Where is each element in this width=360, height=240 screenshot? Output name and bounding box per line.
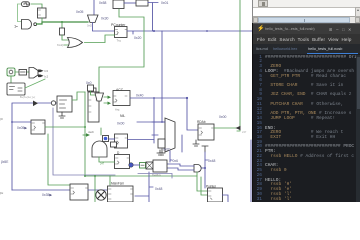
svg-text:b:2: b:2 [45, 75, 49, 79]
wire [181, 135, 183, 152]
svg-text:NIL: NIL [120, 114, 125, 118]
wire [187, 98, 198, 130]
svg-text:0x30: 0x30 [101, 17, 108, 21]
pin marks [116, 158, 130, 164]
component K3 [51, 101, 55, 105]
component glyph [21, 71, 26, 73]
or gate G2 [68, 38, 83, 48]
register T1 [38, 8, 47, 18]
wire [124, 2, 136, 4]
delay element D1 [60, 28, 65, 35]
clock glyph [24, 3, 30, 5]
wire green vert2 [48, 134, 70, 185]
svg-text:(0: (0 [0, 117, 3, 121]
cap top box [90, 88, 96, 92]
wire [31, 4, 42, 8]
junction [204, 167, 206, 169]
demux DM1 [153, 160, 167, 172]
register I1 [115, 134, 128, 148]
breaker X1 [96, 190, 106, 200]
wire diagonal [25, 79, 45, 88]
wire [93, 23, 115, 32]
led L1 [129, 163, 133, 167]
wire green out [214, 127, 237, 129]
wire green route [99, 9, 144, 93]
svg-text:247: 247 [100, 163, 105, 166]
wire [223, 195, 229, 202]
ground GND2 [193, 140, 199, 146]
junction [94, 175, 96, 177]
register IR2 [136, 0, 148, 6]
wire [202, 167, 205, 169]
svg-text:0x35▶: 0x35▶ [42, 193, 52, 197]
input triangle [108, 96, 112, 99]
wire [204, 152, 206, 188]
svg-text:0x01: 0x01 [161, 1, 168, 5]
svg-text:0x05: 0x05 [76, 10, 83, 14]
junction [61, 21, 63, 23]
ground GND3 [202, 146, 208, 152]
svg-text:Trq: Trq [117, 39, 122, 43]
menu bar [253, 34, 360, 44]
pin marks [209, 191, 213, 200]
svg-text:MainFsm: MainFsm [111, 182, 124, 186]
svg-text:247: 247 [242, 130, 247, 134]
wire [109, 176, 111, 185]
wire [61, 22, 63, 28]
svg-text:0x58: 0x58 [99, 1, 106, 5]
input triangle N1 [86, 133, 90, 137]
pin box green [140, 163, 146, 169]
wire green vert [84, 92, 86, 176]
wire [137, 121, 165, 123]
register R4 [70, 184, 88, 200]
junction [161, 121, 163, 123]
wire [135, 172, 153, 202]
wire [37, 22, 88, 24]
terminal K2 [7, 83, 25, 95]
svg-text:1•: 1• [14, 24, 18, 29]
terminal glyphs [10, 87, 23, 92]
svg-text:0x48: 0x48 [208, 159, 215, 163]
wire [18, 4, 22, 22]
svg-text:0x0: 0x0 [86, 81, 92, 85]
driver T2 [88, 15, 99, 23]
pin marks [109, 189, 133, 199]
wire [167, 164, 194, 170]
wire green fsm [94, 176, 96, 202]
fsm box F1 [108, 186, 134, 202]
wire [41, 18, 43, 22]
svg-text:βx: βx [0, 191, 4, 195]
svg-text:0x00: 0x00 [87, 24, 93, 28]
led dot [104, 137, 108, 141]
junction [153, 30, 155, 32]
register ACC1 [113, 91, 130, 106]
wire [153, 98, 155, 143]
driver T4 [95, 93, 104, 101]
output arrow [38, 70, 44, 73]
wire [15, 71, 29, 73]
ground GND1 [59, 112, 65, 118]
wire [83, 134, 86, 136]
wire [152, 122, 165, 135]
input triangle [108, 102, 112, 105]
pin marks [199, 128, 214, 135]
svg-text:0x05▶: 0x05▶ [17, 126, 27, 130]
ground GND5 [159, 149, 165, 155]
wire [130, 164, 140, 166]
wire [170, 151, 172, 162]
junction [186, 97, 188, 99]
wire acc bus [130, 97, 187, 99]
wire [138, 174, 172, 179]
svg-text:0x00: 0x00 [117, 122, 124, 126]
tall register R2 [88, 92, 99, 122]
nand gate G1 [22, 20, 32, 30]
junction [206, 30, 208, 32]
svg-text:0x48: 0x48 [155, 187, 162, 191]
wire [148, 3, 158, 32]
wire green bottom rail [85, 175, 197, 177]
button B1 [7, 68, 15, 76]
register IR1 [113, 0, 124, 9]
pin marks [114, 96, 128, 102]
register RD1 [198, 124, 214, 140]
pin mark [39, 10, 41, 15]
junction [84, 175, 86, 177]
output arrow [236, 126, 241, 130]
svg-text:B+(3+(1+( )+(: B+(3+(1+( )+( [20, 96, 35, 99]
title bar [253, 23, 360, 34]
mux M1 [165, 118, 175, 152]
register PTR1 [208, 188, 223, 202]
register R3 [31, 120, 45, 134]
register D1 [115, 155, 130, 169]
svg-text:0x20: 0x20 [134, 36, 141, 40]
svg-text:Arq: Arq [115, 108, 120, 112]
pin marks [116, 138, 127, 144]
wire [161, 31, 163, 122]
wire [104, 97, 108, 103]
svg-text:RDAb: RDAb [197, 120, 206, 124]
component X2 [146, 162, 153, 169]
wire [88, 189, 110, 191]
pin marks [116, 30, 127, 35]
wire bus bottom [12, 189, 70, 191]
bus wire [12, 103, 57, 190]
cross glyph [147, 163, 152, 168]
svg-text:0x6: 0x6 [173, 159, 179, 163]
wire green stub [100, 128, 102, 135]
led L2 [103, 136, 109, 142]
wire [93, 0, 95, 15]
diode D2 [33, 101, 38, 107]
wire green long [237, 0, 240, 131]
wire [12, 121, 31, 123]
svg-text:0x00: 0x00 [219, 115, 226, 119]
code area [253, 55, 356, 202]
pin marks [32, 123, 44, 130]
wire [128, 139, 155, 141]
output arrow [38, 75, 44, 78]
terminal glyphs [60, 100, 67, 108]
and gate G3 [194, 165, 201, 173]
tick [205, 159, 208, 161]
right scrollbar [356, 55, 360, 202]
svg-text:fm1▷: fm1▷ [57, 43, 65, 47]
and gate G4 [92, 141, 107, 157]
svg-text:Jach: Jach [88, 130, 94, 134]
wire [250, 140, 252, 202]
junction [11, 121, 13, 123]
wire [197, 172, 208, 195]
junction [84, 126, 86, 128]
junction [153, 97, 155, 99]
component K1 [19, 70, 27, 76]
svg-text:0x40: 0x40 [136, 94, 143, 98]
button glyph [9, 70, 13, 74]
pin marks [89, 100, 98, 112]
register PC1 [115, 27, 128, 38]
ground GND4 [157, 150, 163, 155]
wire [99, 157, 115, 162]
terminal K4 [57, 96, 72, 112]
pin glyph [141, 164, 144, 166]
wire [85, 35, 115, 43]
wire [91, 91, 96, 95]
sub box [111, 142, 117, 147]
splitter T3 [29, 68, 38, 79]
svg-text:βx5E: βx5E [1, 160, 8, 164]
constant C0 [88, 85, 94, 91]
clock CLK1 [22, 2, 30, 7]
wire [109, 138, 115, 140]
wire [72, 92, 85, 100]
nand bubble [34, 23, 37, 26]
wire pc bus [127, 31, 252, 34]
wire [62, 35, 68, 45]
svg-text:b:0: b:0 [45, 69, 49, 73]
wire slate [53, 108, 115, 175]
pin marks [71, 188, 88, 194]
wire green out [45, 126, 85, 128]
component pin box [158, 139, 165, 148]
breaker cross [98, 192, 105, 199]
tab bar [253, 44, 360, 54]
wire [10, 76, 12, 83]
